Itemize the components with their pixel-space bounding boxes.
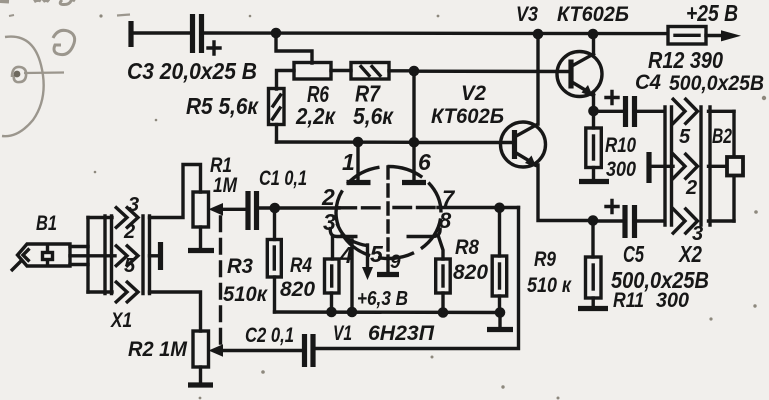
ground chassis (R2) (188, 382, 213, 387)
+25V supply arrow (721, 30, 741, 41)
wire R3 bottom to cathode rail (273, 277, 276, 312)
wire node to R10 (592, 111, 595, 128)
potentiometer R2 (193, 331, 209, 367)
svg-text:R2 1М: R2 1М (128, 338, 187, 361)
svg-text:1: 1 (342, 149, 355, 175)
headphone B2 (727, 157, 743, 176)
svg-text:+25 В: +25 В (686, 0, 738, 26)
wire X2 pin5 to B2 loop (709, 110, 735, 113)
svg-text:5,6к: 5,6к (353, 103, 394, 129)
ground chassis (R11) (578, 306, 608, 311)
cathode V1.2 (407, 228, 441, 237)
connector X1 contact 2 (arrow) (115, 245, 138, 267)
transistor V3 (557, 52, 602, 98)
R2 wiper arrow (209, 344, 224, 357)
wire bracket to pin5 row (88, 290, 112, 293)
resistor R8 (436, 259, 451, 293)
resistor R4 (325, 259, 340, 293)
svg-text:R5 5,6к: R5 5,6к (186, 93, 259, 119)
svg-text:2,2к: 2,2к (295, 103, 336, 129)
chassis bar (X1 pin 2) (158, 242, 163, 270)
connector X1 socket lines right (143, 216, 150, 294)
wire anode lead V1 pin 1 (356, 142, 359, 181)
connector X1 contact 5 (arrow) (115, 281, 138, 303)
wire V2 base line (414, 141, 513, 144)
svg-text:С4: С4 (635, 71, 661, 94)
connector X2 contact 2 (arrow) (672, 153, 698, 180)
grid V1.2 (pin 7) dashed (394, 206, 438, 209)
svg-text:С3 20,0х25 В: С3 20,0х25 В (127, 58, 257, 84)
wire node to C4 plate (594, 110, 626, 113)
svg-text:R3: R3 (227, 255, 253, 278)
svg-text:R11: R11 (613, 289, 644, 312)
anode V1.2 (402, 180, 426, 185)
wire R12 to +25V arrow (706, 34, 724, 37)
svg-text:9: 9 (390, 252, 401, 273)
svg-text:3: 3 (323, 209, 336, 235)
scan artifact: pencil oval top-left (2, 37, 44, 137)
node C1 / R3 / grid-2 (270, 203, 281, 214)
ground chassis (R10) (579, 179, 609, 184)
node V3 emitter / C4 / R10 (588, 106, 599, 117)
svg-text:4: 4 (339, 242, 353, 268)
svg-text:КТ602Б: КТ602Б (557, 3, 629, 26)
node rail / V3 collector (588, 29, 599, 40)
wire R1 bottom (199, 227, 202, 247)
R1 wiper arrow (209, 203, 224, 216)
ground chassis (tube rail) (487, 327, 513, 332)
node R9 top (494, 203, 505, 214)
svg-text:2: 2 (123, 221, 135, 243)
resistor R5 (269, 89, 285, 125)
resistor R12 (668, 27, 706, 45)
wire R1 wiper to C1 (221, 208, 246, 211)
scan artifact: pencil dash right of ear (117, 15, 130, 16)
wire B1 shield bottom stub (70, 263, 88, 266)
svg-text:820: 820 (280, 278, 315, 301)
wire R9 bottom to rail (498, 296, 501, 312)
wire cathode bottom rail (275, 310, 501, 314)
connector X2 contact 3 (arrow) (672, 208, 698, 235)
svg-text:R4: R4 (290, 254, 312, 277)
svg-text:500,0х25В: 500,0х25В (669, 72, 764, 95)
wire +25V rail C3 to R12 (201, 31, 667, 35)
terminal left end of +25V rail (128, 21, 133, 47)
pin 9 lead (386, 256, 389, 272)
svg-text:820: 820 (453, 261, 488, 284)
node V2 emitter / C5 / R11 (588, 215, 599, 226)
heater filament curve (337, 224, 367, 246)
wire C1 to grid node (257, 206, 340, 209)
capacitor C1 (248, 191, 257, 230)
svg-text:5: 5 (124, 255, 136, 277)
wire C5 to X2 pin3 (635, 219, 665, 222)
svg-text:+6,3 В: +6,3 В (357, 288, 408, 310)
connector X2 contact 5 (arrow) (672, 98, 698, 125)
wire X1 pin5 to R2 top (150, 292, 201, 331)
svg-text:С1 0,1: С1 0,1 (259, 167, 307, 190)
resistor R10 (586, 128, 602, 168)
wire B1 shield top stub (70, 245, 88, 248)
svg-text:V2: V2 (461, 82, 486, 105)
wire X2 pin2 to B2 (709, 165, 729, 168)
wire R2 bottom (199, 367, 202, 382)
node rail R9 / ground (495, 307, 506, 318)
wire B1 centre to pin2 contact (70, 254, 115, 257)
svg-text:R10: R10 (605, 134, 636, 157)
capacitor C2 (305, 334, 314, 367)
scan artifact: top edge handwriting (34, 0, 49, 1)
wire node to R11 (591, 221, 594, 258)
wire anode lead V1 pin 6 (412, 142, 415, 181)
cathode V1.1 (330, 227, 357, 237)
scan artifact: pencil line (24, 71, 64, 74)
grid V1.1 (pin 2) dashed (339, 206, 384, 209)
svg-text:300: 300 (656, 289, 689, 312)
wire R7 to node A (389, 69, 414, 72)
node rail heater pin4 (347, 307, 358, 318)
svg-text:Х2: Х2 (677, 241, 702, 267)
anode V1.1 (347, 180, 371, 185)
svg-text:3: 3 (128, 194, 139, 216)
svg-text:V1: V1 (333, 322, 352, 345)
mechanical gang dashed link R1-R2 (219, 217, 222, 344)
wire B1 shield bracket (86, 218, 89, 293)
node rail / R5 branch (271, 28, 282, 39)
+6.3V heater supply arrow (pin 5) (362, 245, 373, 280)
wire R11 to ground (592, 298, 595, 306)
svg-text:В1: В1 (36, 212, 57, 235)
svg-text:5: 5 (370, 241, 384, 267)
wire B2 loop right side (732, 111, 735, 221)
wire chassis bar to X2 pin2 (649, 165, 673, 168)
scan artifact: spiral dark centre (14, 71, 21, 78)
svg-text:1М: 1М (213, 174, 237, 197)
chassis bar (X2 pin 2) (646, 152, 651, 183)
wire bracket to pin3 row (88, 216, 112, 219)
wire R8 bottom to rail (441, 293, 444, 312)
resistor R6 (294, 63, 331, 80)
capacitor C4 (606, 92, 635, 128)
wire R6 left to R5 top (277, 71, 295, 90)
capacitor C5 (606, 201, 635, 239)
scan artifact: pencil spiral (12, 67, 26, 82)
wire R6 to R7 (331, 69, 351, 72)
wire heater pin 4 down (350, 240, 353, 312)
svg-text:V3: V3 (516, 3, 538, 26)
pickup B1 body (11, 244, 70, 271)
wire C5 node to plate (593, 219, 625, 222)
svg-text:6Н23П: 6Н23П (368, 322, 435, 345)
node rail / V2 collector (533, 29, 544, 40)
wire grid-7 node line (438, 206, 519, 209)
svg-text:6: 6 (418, 149, 431, 175)
wire X1 pin2 to chassis bar (150, 254, 159, 257)
svg-text:2: 2 (685, 177, 697, 199)
wire X1 pin3 to R1 top (150, 165, 201, 218)
connector X2 socket lines right (701, 107, 710, 225)
svg-text:5: 5 (679, 126, 691, 148)
connector X1 contact 3 (arrow) (115, 207, 138, 229)
node rail R4 (326, 307, 337, 318)
resistor R9 (492, 256, 507, 296)
potentiometer R1 (193, 192, 209, 227)
svg-text:С2 0,1: С2 0,1 (245, 324, 294, 347)
wire V2 collector to rail (536, 34, 539, 124)
wire C4 to X2 pin5 (635, 110, 665, 113)
wire cathode V1.2 to R8 (439, 237, 444, 260)
svg-text:8: 8 (439, 208, 452, 233)
capacitor C3 (193, 14, 221, 54)
node A (R7 / anode-6 / V3 base line) (409, 66, 420, 77)
wire cathode V1.1 to R4 (331, 237, 334, 260)
resistor R3 (267, 240, 281, 278)
svg-text:С5: С5 (623, 241, 645, 267)
wire node to R9 (498, 208, 501, 256)
wire rail left to C3 (131, 31, 189, 34)
wire anode net horizontal (277, 140, 415, 144)
node rail R8 (438, 307, 449, 318)
wire C1 node to R3 (273, 208, 276, 240)
wire R10 to ground (592, 168, 595, 179)
wire C2 to R2 wiper (222, 349, 304, 352)
tube V1 envelope (336, 167, 441, 259)
wire R5 bottom to anode line (275, 125, 278, 143)
ground bar pin 9 (377, 272, 399, 277)
node anode V1.2 / V2 base (409, 137, 420, 148)
wire R4 bottom to rail (330, 293, 333, 312)
wire V3 emitter to node (592, 94, 595, 111)
wire node A to V3 base (crosses V2 collector riser) (414, 69, 571, 73)
svg-text:510к: 510к (223, 283, 268, 306)
resistor R11 (586, 257, 602, 298)
svg-text:510 к: 510 к (527, 274, 572, 297)
wire V2 emitter down to C5 node (538, 165, 593, 221)
connector X1 socket lines left (105, 216, 112, 294)
scan artifact: ear curve (53, 30, 75, 54)
tube V1 internal screen divider (pin 9) dashed (386, 167, 389, 256)
svg-text:В2: В2 (712, 125, 732, 148)
svg-text:R8: R8 (455, 236, 479, 259)
wire node A down to anode net (412, 71, 415, 142)
svg-text:2: 2 (321, 184, 335, 210)
resistor R7 (351, 63, 389, 80)
wire rail node to chassis ground (498, 313, 501, 328)
transistor V2 (501, 122, 546, 168)
wire V3 collector to rail (592, 34, 595, 54)
ground chassis (R1) (188, 248, 214, 253)
wire C2 riser to grid-7 line (313, 208, 519, 349)
svg-text:300: 300 (606, 158, 636, 181)
wire from rail node down to R6 (276, 33, 312, 63)
svg-text:Х1: Х1 (110, 309, 132, 332)
node anode V1.1 (353, 137, 364, 148)
wire X2 pin3 to B2 loop bottom (709, 219, 735, 222)
svg-text:R12 390: R12 390 (648, 47, 723, 73)
scan artifact: corner mark (0, 0, 9, 4)
svg-text:КТ602Б: КТ602Б (431, 105, 504, 128)
connector X2 socket lines left (665, 107, 672, 225)
svg-text:R9: R9 (534, 248, 556, 271)
